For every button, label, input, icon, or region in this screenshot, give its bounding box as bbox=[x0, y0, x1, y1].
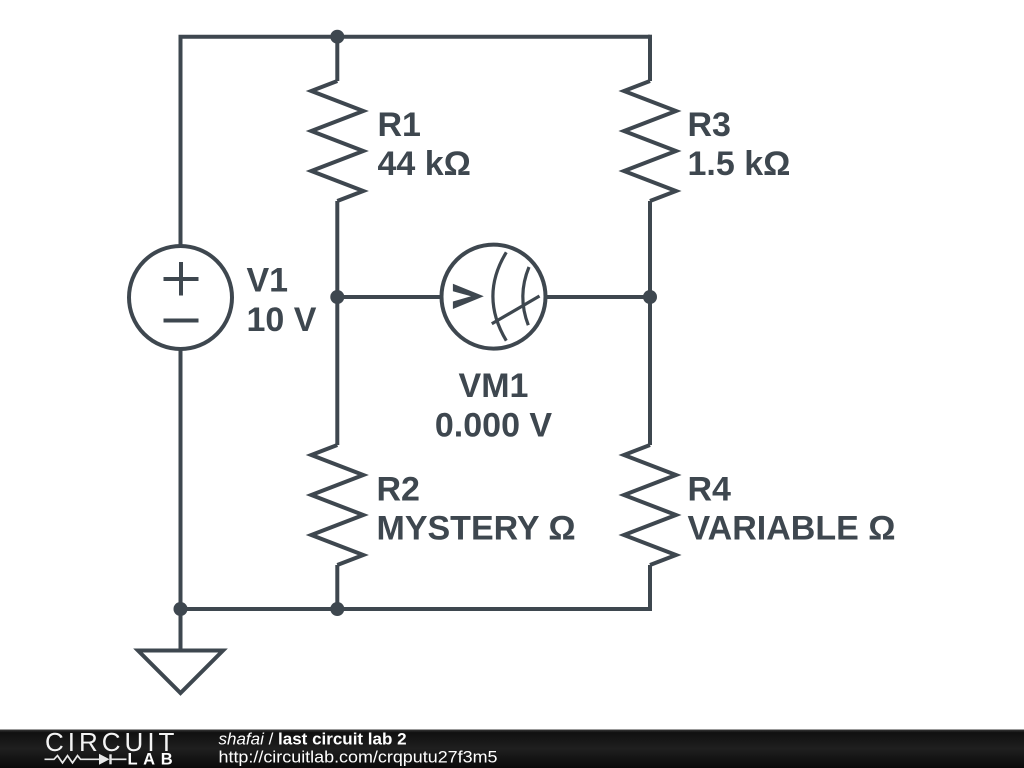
voltmeter VM1 bbox=[442, 245, 546, 349]
svg-text:R3: R3 bbox=[688, 106, 731, 144]
svg-text:10 V: 10 V bbox=[247, 301, 317, 339]
resistor R2 bbox=[311, 445, 363, 565]
wire right branch top lead bbox=[648, 35, 652, 81]
svg-text:VM1: VM1 bbox=[459, 367, 529, 405]
svg-text:MYSTERY Ω: MYSTERY Ω bbox=[377, 510, 576, 548]
svg-text:V1: V1 bbox=[247, 262, 289, 300]
wire voltmeter right to node bbox=[544, 295, 650, 299]
node junction top middle bbox=[330, 30, 344, 44]
wire ground lead bbox=[179, 609, 183, 650]
wire middle branch R2 to bottom rail bbox=[335, 565, 339, 609]
wire V1 bottom lead bbox=[179, 348, 183, 609]
voltage source V1 bbox=[129, 246, 232, 349]
resistor R3 bbox=[624, 81, 676, 201]
svg-text:R2: R2 bbox=[377, 471, 420, 509]
svg-text:VARIABLE Ω: VARIABLE Ω bbox=[688, 510, 896, 548]
node junction bottom left bbox=[174, 602, 188, 616]
svg-text:R1: R1 bbox=[378, 106, 421, 144]
ground bbox=[138, 651, 223, 694]
wire middle branch R1 to node bbox=[335, 201, 339, 297]
wire bottom rail bbox=[181, 607, 653, 611]
resistor R1 bbox=[311, 81, 363, 201]
logo resistor-diode squiggle bbox=[45, 754, 127, 764]
footer bar bbox=[0, 730, 1024, 768]
wire left vertical top (V1 to top rail) bbox=[179, 37, 183, 247]
svg-text:LAB: LAB bbox=[128, 751, 179, 768]
node junction middle right bbox=[643, 290, 657, 304]
wire node to voltmeter left bbox=[337, 295, 443, 299]
svg-text:44 kΩ: 44 kΩ bbox=[378, 145, 471, 183]
node junction middle left bbox=[330, 290, 344, 304]
svg-text:1.5 kΩ: 1.5 kΩ bbox=[688, 145, 791, 183]
logo diode triangle bbox=[99, 754, 110, 765]
wire right branch R4 to bottom rail bbox=[648, 565, 652, 611]
svg-text:shafai / last circuit lab 2: shafai / last circuit lab 2 bbox=[219, 730, 407, 749]
node junction bottom middle bbox=[330, 602, 344, 616]
wire right branch R3 to node bbox=[648, 201, 652, 297]
svg-text:R4: R4 bbox=[688, 471, 732, 509]
svg-text:0.000 V: 0.000 V bbox=[435, 407, 553, 445]
wire middle branch top lead bbox=[335, 37, 339, 81]
wire middle branch node to R2 bbox=[335, 297, 339, 445]
svg-text:http://circuitlab.com/crqputu2: http://circuitlab.com/crqputu27f3m5 bbox=[219, 748, 498, 767]
wire right branch node to R4 bbox=[648, 297, 652, 445]
resistor R4 bbox=[624, 445, 676, 565]
wire top rail bbox=[179, 35, 651, 39]
